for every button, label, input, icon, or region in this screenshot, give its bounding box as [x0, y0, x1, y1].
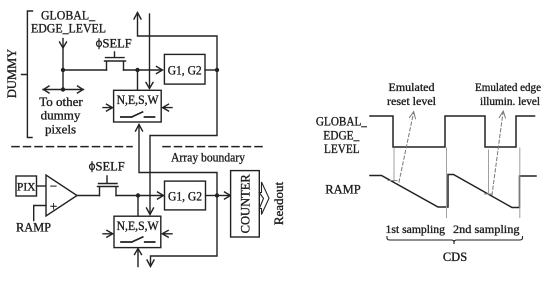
- node B junction dot (dummy row): [135, 68, 139, 72]
- svg-text:EDGE_LEVEL: EDGE_LEVEL: [31, 21, 106, 36]
- node A junction dot: [61, 68, 65, 72]
- wire node E to COUNTER with arrow: [217, 195, 229, 197]
- arrowhead into dummy G1,G2: [157, 67, 163, 74]
- PIX box: [16, 176, 37, 196]
- svg-text:RAMP: RAMP: [16, 220, 51, 235]
- svg-text:CDS: CDS: [443, 250, 467, 264]
- transistor real phi-SELF: [98, 176, 119, 196]
- CDS brace: [387, 237, 523, 244]
- wire GLOBAL_EDGE_LEVEL input arrow: [62, 39, 64, 71]
- svg-text:GLOBAL_: GLOBAL_: [316, 114, 368, 128]
- wire dummy row main: [63, 69, 162, 71]
- dummy G1, G2 box: [164, 54, 205, 84]
- wire real pixel output up into dummy NESW (feedback): [139, 125, 217, 196]
- svg-text:2nd sampling: 2nd sampling: [453, 222, 520, 236]
- svg-text:SELF: SELF: [103, 37, 132, 51]
- svg-text:To other: To other: [39, 94, 83, 109]
- label To other dummy pixels: [39, 94, 83, 137]
- real G1, G2 box: [165, 181, 206, 210]
- svg-text:reset level: reset level: [387, 94, 437, 108]
- arrow east into real NESW: [162, 230, 172, 237]
- wire node D down into real NESW box: [137, 196, 139, 217]
- svg-text:+: +: [50, 199, 57, 214]
- switch inside real NESW: [121, 237, 155, 242]
- sampling marker lines: [394, 148, 520, 218]
- svg-text:SELF: SELF: [96, 160, 125, 174]
- node C junction dot: [215, 68, 219, 72]
- waveform GLOBAL_EDGE_LEVEL: [370, 116, 535, 147]
- op-amp U1: [46, 175, 77, 216]
- transistor dummy phi-SELF: [105, 52, 126, 70]
- wire G1G2 out to node E: [206, 195, 218, 197]
- svg-text:DUMMY: DUMMY: [5, 49, 19, 98]
- dummy section brace: [22, 11, 33, 138]
- wire RAMP input: [34, 206, 46, 221]
- wire node B to dummy NESW box: [137, 70, 139, 90]
- label Emulated edge illumin. level: [475, 80, 541, 108]
- svg-text:G1, G2: G1, G2: [168, 190, 202, 204]
- readout block arrow: [259, 182, 269, 215]
- wire G1G2 out to node C: [205, 69, 217, 71]
- svg-text:G1, G2: G1, G2: [168, 64, 202, 78]
- svg-text:dummy: dummy: [41, 108, 81, 123]
- svg-text:N,E,S,W: N,E,S,W: [117, 219, 159, 233]
- arrow from pixel below up into real NESW: [137, 249, 139, 267]
- wire to other dummy pixels double arrow: [43, 89, 84, 91]
- COUNTER box: [231, 171, 260, 237]
- wire stub to To-other arrow: [62, 70, 64, 90]
- svg-text:RAMP: RAMP: [325, 182, 361, 197]
- array boundary dashed line: [12, 146, 132, 148]
- label phiSELF (dummy): [103, 37, 132, 51]
- wire real output down to pixel below: [151, 196, 218, 266]
- svg-text:N,E,S,W: N,E,S,W: [117, 93, 159, 107]
- arrow west into real NESW: [103, 230, 113, 237]
- switch inside dummy NESW: [121, 112, 155, 117]
- svg-text:1st sampling: 1st sampling: [386, 222, 446, 236]
- arrow west into dummy NESW: [103, 104, 113, 111]
- label GLOBAL_EDGE_LEVEL (right): [316, 114, 368, 156]
- node E junction dot: [215, 193, 219, 197]
- waveform RAMP: [370, 175, 536, 208]
- wire output bus up with arrow (to pixel above): [138, 13, 218, 70]
- dashed annotation arrow (reset level): [399, 112, 416, 183]
- svg-text:EDGE_: EDGE_: [323, 128, 360, 142]
- real N,E,S,W box U4: [114, 216, 161, 247]
- label 1st sampling: [386, 222, 520, 236]
- label Emulated reset level: [387, 80, 437, 108]
- svg-text:Readout: Readout: [271, 181, 286, 225]
- wire input from pixel above down into dummy NESW: [149, 14, 151, 88]
- svg-text:PIX: PIX: [17, 182, 36, 194]
- wire node D to G1,G2 with arrow: [138, 195, 163, 197]
- svg-text:Emulated: Emulated: [389, 80, 435, 94]
- node D junction dot (real row): [136, 193, 140, 197]
- wire PIX to op-amp: [37, 185, 47, 187]
- arrow east into dummy NESW: [163, 104, 173, 111]
- svg-text:COUNTER: COUNTER: [239, 174, 253, 234]
- svg-text:−: −: [50, 179, 57, 194]
- dummy N,E,S,W box U2: [114, 90, 162, 122]
- svg-text:pixels: pixels: [45, 122, 76, 137]
- label phiSELF (real): [96, 160, 125, 174]
- level tick marks: [388, 181, 492, 195]
- svg-text:Array boundary: Array boundary: [171, 150, 245, 165]
- svg-text:Emulated edge: Emulated edge: [475, 80, 541, 94]
- svg-text:LEVEL: LEVEL: [324, 142, 360, 156]
- dashed annotation arrow (edge illumin level): [492, 111, 506, 195]
- wire op-amp output: [77, 195, 136, 197]
- svg-text:illumin. level: illumin. level: [480, 94, 541, 108]
- wire dummy output down to real pixel NESW: [150, 70, 217, 214]
